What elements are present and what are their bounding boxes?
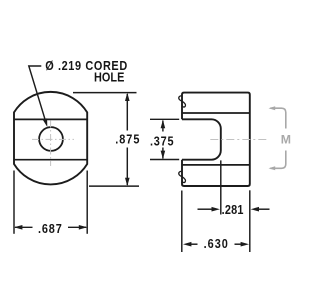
dim .875 arrow down [125, 178, 130, 186]
svg-text:.375: .375 [150, 133, 174, 148]
dim .375 line lower [162, 148, 164, 159]
side view centerline [210, 139, 266, 141]
cored hole [39, 127, 63, 151]
dim .375 extension line top [150, 118, 179, 120]
dim .375 arrow down [161, 151, 166, 159]
dim .375 line upper [162, 121, 164, 132]
dim .687 extension line right [86, 171, 88, 234]
dim .281 tail right [258, 208, 270, 210]
mirror arrow top head [269, 106, 276, 110]
dim .375 extension line bottom [150, 159, 179, 161]
dim .630 line left [190, 243, 198, 245]
front view outline [14, 92, 87, 185]
svg-text:HOLE: HOLE [94, 70, 124, 85]
dim .375 arrow up [161, 120, 166, 128]
side view outline [182, 93, 250, 186]
svg-text:M: M [281, 133, 291, 147]
dim .875 arrow up [125, 93, 130, 101]
leader arrowhead [43, 118, 48, 127]
dim .875 extension line top [73, 92, 137, 94]
hole centerline vertical [50, 121, 52, 167]
break squiggle top [179, 96, 186, 107]
mirror arrow top [270, 108, 286, 128]
dim .281 extension line from slot [220, 160, 222, 214]
break squiggle bottom [179, 171, 186, 182]
dim .687 arrow right [79, 225, 87, 230]
dim .630 arrow right [241, 242, 249, 247]
dim .687 arrow left [14, 225, 22, 230]
dim .687 line left [15, 226, 33, 228]
dim .875 line upper [126, 94, 128, 131]
dim .875 line lower [126, 148, 128, 186]
leader line [29, 66, 45, 119]
svg-text:.687: .687 [38, 221, 62, 236]
svg-text:.875: .875 [115, 131, 139, 146]
dim .630 extension line right [249, 190, 251, 252]
dim .687 extension line left [13, 171, 15, 234]
side view tangent line bottom [182, 164, 250, 166]
dim .281 arrow right [251, 207, 259, 212]
hole centerline horizontal [32, 138, 74, 140]
side view slot [182, 119, 221, 159]
flat edge line top [14, 118, 87, 120]
mirror arrow bottom head [269, 166, 276, 170]
flat edge line bottom [14, 159, 87, 161]
dim .281 tail left [198, 208, 213, 210]
dim .875 extension line bottom [89, 185, 139, 187]
mirror arrow bottom [270, 151, 286, 169]
dim .630 line right [235, 243, 242, 245]
svg-text:.281: .281 [222, 202, 244, 217]
dim .630 extension line left [181, 191, 183, 253]
dim .687 line right [68, 226, 86, 228]
dim .630 arrow left [183, 242, 191, 247]
dim .281 arrow left [212, 207, 220, 212]
svg-text:.630: .630 [204, 236, 228, 251]
side view tangent line top [182, 112, 250, 114]
